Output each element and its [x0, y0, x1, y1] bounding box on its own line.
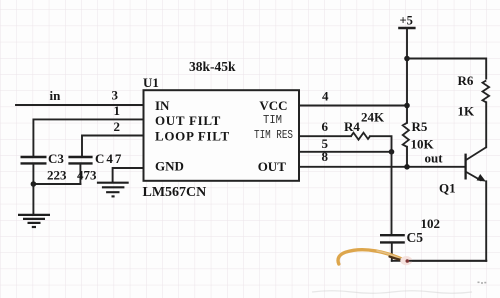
svg-text:4: 4	[322, 88, 329, 103]
wire branch to R6	[407, 59, 486, 79]
watermark swoosh	[338, 250, 412, 265]
svg-text:OUT FILT: OUT FILT	[155, 113, 221, 128]
svg-text:24K: 24K	[361, 110, 385, 125]
wire node to C5	[391, 152, 393, 234]
ground right	[97, 183, 129, 197]
svg-text:1: 1	[114, 103, 121, 118]
wire pin 8 OUT to transistor base	[299, 166, 465, 168]
svg-text:C47: C47	[95, 151, 123, 166]
wire emitter down	[485, 181, 487, 260]
svg-text:LOOP FILT: LOOP FILT	[155, 128, 230, 143]
junction node rail/VCC	[404, 103, 410, 109]
svg-text:R4: R4	[344, 119, 360, 134]
svg-text:U1: U1	[143, 75, 159, 90]
capacitor C3	[21, 157, 47, 184]
junction node at C3 bottom	[31, 181, 37, 187]
svg-text:C5: C5	[407, 230, 424, 245]
capacitor C5	[380, 235, 405, 261]
wire input to pin 3	[16, 104, 144, 106]
svg-text:Q1: Q1	[439, 181, 456, 196]
svg-text:out: out	[425, 151, 444, 166]
junction node out	[404, 164, 410, 170]
wire C5 to emitter	[392, 260, 486, 262]
ground left	[18, 215, 50, 227]
resistor R4	[351, 133, 370, 140]
wire GND pin to ground	[113, 168, 144, 182]
svg-text:GND: GND	[155, 159, 184, 174]
resistor R6	[483, 81, 490, 103]
stray marks bottom right	[478, 282, 487, 284]
wire R4 to node	[370, 136, 392, 152]
svg-text:102: 102	[421, 216, 441, 231]
wire pin 6 to R4	[299, 135, 351, 137]
svg-text:C3: C3	[48, 151, 64, 166]
wire pin 2 to C47	[82, 136, 144, 157]
svg-text:1K: 1K	[458, 103, 476, 118]
svg-text:OUT: OUT	[258, 159, 287, 174]
wire right of watermark	[410, 260, 486, 262]
svg-text:IN: IN	[155, 98, 170, 113]
svg-text:473: 473	[77, 168, 97, 183]
wire joining C3 and C47 bottoms	[33, 183, 80, 185]
wire pin 1 to C3	[33, 119, 143, 156]
svg-text:LM567CN: LM567CN	[143, 185, 207, 200]
svg-text:VCC: VCC	[259, 98, 287, 113]
IC U1 LM567CN body	[144, 90, 300, 181]
svg-text:8: 8	[322, 149, 329, 164]
svg-text:10K: 10K	[411, 137, 435, 152]
svg-text:223: 223	[47, 168, 67, 183]
svg-text:+5: +5	[400, 14, 413, 28]
svg-text:in: in	[50, 88, 62, 103]
faint ghost line bottom	[312, 291, 472, 294]
svg-text:6: 6	[322, 119, 329, 134]
wire +5 rail down	[406, 28, 408, 123]
wire pin 5	[299, 151, 392, 153]
capacitor C47	[68, 157, 92, 184]
svg-text:TIM RES: TIM RES	[254, 129, 293, 142]
wire down to ground	[32, 184, 34, 214]
wire R5 to out node	[406, 147, 408, 167]
power +5 symbol	[398, 14, 415, 29]
junction node rail/R6 branch	[404, 56, 410, 62]
svg-text:TIM: TIM	[263, 114, 282, 127]
svg-text:R6: R6	[458, 73, 474, 88]
svg-text:R5: R5	[412, 119, 428, 134]
wire pin 4 VCC to rail	[299, 105, 407, 107]
transistor Q1	[466, 147, 487, 181]
svg-text:3: 3	[112, 88, 119, 103]
resistor R5	[403, 123, 409, 147]
svg-text:38k-45k: 38k-45k	[189, 59, 236, 74]
junction node pin5/pin6	[389, 149, 395, 155]
svg-text:2: 2	[114, 119, 121, 134]
wire R6 to collector	[485, 102, 487, 147]
